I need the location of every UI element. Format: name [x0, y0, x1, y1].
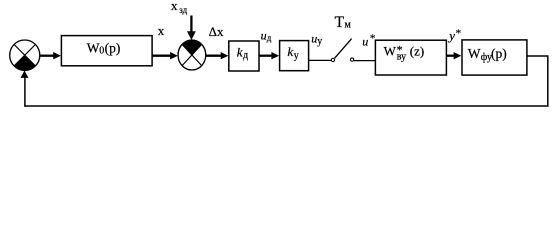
- wire: arrow x_зд into S2 from top: [187, 16, 196, 41]
- svg-text:0: 0: [99, 46, 104, 57]
- svg-text:W: W: [468, 46, 481, 61]
- svg-text:x: x: [171, 0, 178, 13]
- block W*_ву(z): [375, 40, 446, 75]
- svg-text:зд: зд: [179, 5, 187, 15]
- svg-text:у: у: [294, 50, 299, 61]
- wire: arrow S1 to W0 block: [40, 52, 61, 59]
- block k_у: [280, 41, 309, 71]
- node label u_у: [311, 31, 322, 47]
- svg-text:u: u: [362, 34, 368, 48]
- svg-text:д: д: [243, 50, 248, 61]
- svg-text:W: W: [87, 40, 100, 55]
- svg-text:д: д: [267, 33, 272, 43]
- summing junction S1 (comparator, bottom quadrant filled): [10, 40, 40, 70]
- input label x_зд: [171, 0, 188, 15]
- wire: arrow W_ву to W_фу: [446, 52, 461, 59]
- svg-text:x: x: [158, 23, 165, 38]
- wire: k_у to sampler contact: [309, 59, 332, 61]
- svg-text:k: k: [287, 44, 293, 59]
- svg-text:T: T: [335, 14, 345, 31]
- wire: W_фу output to right: [527, 55, 549, 57]
- block W0(p): [61, 36, 152, 66]
- svg-text:u: u: [261, 28, 267, 42]
- svg-text:*: *: [370, 32, 376, 44]
- svg-text:(z): (z): [410, 44, 424, 59]
- svg-text:k: k: [237, 45, 243, 60]
- wire: arrow k_д to k_у: [259, 52, 279, 59]
- wire: arrow S2 to k_д: [206, 52, 229, 59]
- svg-text:y: y: [447, 28, 455, 43]
- svg-text:Δx: Δx: [209, 24, 224, 39]
- label T_м: [335, 14, 352, 31]
- svg-text:*: *: [456, 27, 462, 39]
- wire: feedback down right side: [547, 56, 549, 107]
- wire: sampler to W_ву block: [354, 60, 375, 62]
- summing junction S2 (top quadrant filled): [178, 40, 206, 70]
- block W_фу(p): [462, 40, 527, 75]
- svg-text:у: у: [317, 36, 322, 47]
- svg-text:W: W: [384, 43, 397, 58]
- wire: feedback bottom run: [24, 105, 548, 107]
- wire: feedback up into S1: [21, 70, 29, 106]
- svg-text:м: м: [345, 20, 352, 31]
- node label u*: [362, 32, 375, 48]
- svg-text:ву: ву: [397, 51, 406, 62]
- block k_д: [229, 41, 259, 71]
- svg-text:(p): (p): [491, 46, 507, 61]
- wire: arrow W0 to summing junction S2: [152, 52, 178, 59]
- svg-text:(p): (p): [105, 40, 121, 55]
- node label u_д: [261, 28, 272, 42]
- node label y*: [447, 27, 461, 42]
- sampler switch T_м: [331, 39, 353, 62]
